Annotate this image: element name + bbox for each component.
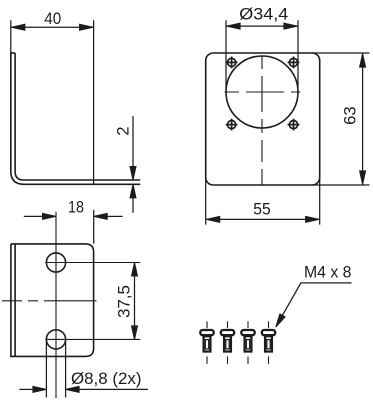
dimension O34,4 arrow right — [284, 23, 298, 29]
dimension 55 extension line right — [319, 178, 321, 225]
svg-text:2: 2 — [114, 126, 132, 135]
face plate outline (front view) — [206, 53, 320, 185]
screw 3 — [241, 321, 254, 364]
hole bottom (bottom view) — [46, 330, 65, 349]
dimension 18 left arrow (right) — [43, 213, 57, 219]
vertical centerline (dashed) — [261, 57, 263, 185]
dimension 18 left tail line — [24, 215, 43, 217]
mounting hole top-left — [226, 57, 238, 69]
leader arrow — [273, 314, 285, 329]
dimension 2 upper line — [132, 116, 134, 167]
svg-text:M4 x 8: M4 x 8 — [304, 263, 352, 281]
hole bottom crosshair / extension line to 37,5 dim — [45, 338, 140, 340]
mounting hole top-right — [288, 57, 300, 69]
dimension 18 extension line right — [93, 210, 95, 244]
dimension 55 extension line left — [205, 178, 207, 225]
dimension 18 right tail line — [107, 215, 122, 217]
connector hole (big circle) — [226, 56, 298, 128]
dimension 63 extension line top — [312, 52, 370, 54]
horizontal centerline (dashed) — [2, 300, 97, 302]
screw 2 — [221, 321, 234, 364]
hole top crosshair / extension line to 37,5 dim — [45, 262, 140, 264]
dimension 18 right arrow (left) — [94, 213, 108, 219]
svg-text:40: 40 — [44, 10, 61, 28]
screw 4 — [262, 321, 275, 364]
svg-text:37,5: 37,5 — [116, 285, 134, 318]
dimension 40 extension line left — [10, 20, 12, 53]
dimension O8,8 left tail line — [19, 388, 33, 390]
dimension O8,8 right arrow (left) — [66, 386, 80, 392]
screw 1 — [200, 321, 213, 364]
bracket outer contour (side view) — [11, 53, 141, 184]
dimension 63 extension line bottom — [312, 184, 370, 186]
svg-text:Ø34,4: Ø34,4 — [239, 5, 288, 23]
flange fold line (left inner edge) — [14, 244, 16, 357]
dimension O8,8 extension line left (hole tangent) — [45, 340, 47, 398]
dimension 37,5 arrow bottom (down) — [132, 326, 138, 340]
svg-text:63: 63 — [341, 106, 359, 125]
dimension 55 arrow right — [306, 216, 320, 222]
dimension O8,8 left arrow (right) — [33, 386, 47, 392]
dimension 2 lower line — [132, 198, 134, 213]
dimension 37,5 arrow top (up) — [132, 263, 138, 277]
dimension 40 line — [11, 26, 93, 28]
bracket top edge (side view) — [11, 52, 15, 54]
dimension O34,4 extension line left — [225, 20, 227, 88]
dimension 63 line — [362, 54, 364, 185]
dimension O34,4 extension line right — [297, 20, 299, 88]
dimension 63 arrow bottom (down) — [360, 171, 366, 185]
hole top (bottom view) — [46, 253, 65, 272]
dimension 55 line — [206, 218, 319, 220]
dimension 37,5 line — [134, 263, 136, 340]
svg-text:Ø8,8 (2x): Ø8,8 (2x) — [71, 370, 142, 388]
dimension 2 lower arrow (up) — [130, 184, 136, 198]
dimension O34,4 line — [227, 25, 298, 27]
hole centerline vertical (through both holes) — [55, 212, 57, 398]
dimension O8,8 extension line right (hole tangent) — [65, 340, 67, 398]
svg-text:18: 18 — [68, 198, 84, 216]
dimension 55 arrow left — [206, 216, 220, 222]
dimension O34,4 arrow left — [227, 23, 241, 29]
dimension 2 upper arrow (down) — [130, 167, 136, 181]
dimension 40 arrow right — [80, 24, 94, 30]
bracket inner contour (side view) — [15, 53, 140, 180]
dimension O8,8 right tail line — [79, 388, 148, 390]
horizontal centerline (dashed) — [225, 91, 301, 93]
dimension 63 arrow top (up) — [360, 54, 366, 68]
mounting hole bottom-left — [226, 119, 238, 131]
svg-text:55: 55 — [253, 201, 271, 219]
dimension 40 arrow left — [11, 24, 25, 30]
flange plate outline (bottom view) — [11, 244, 94, 357]
leader line — [279, 283, 352, 322]
mounting hole bottom-right — [288, 119, 300, 131]
dimension 40 extension line right — [93, 20, 95, 184]
